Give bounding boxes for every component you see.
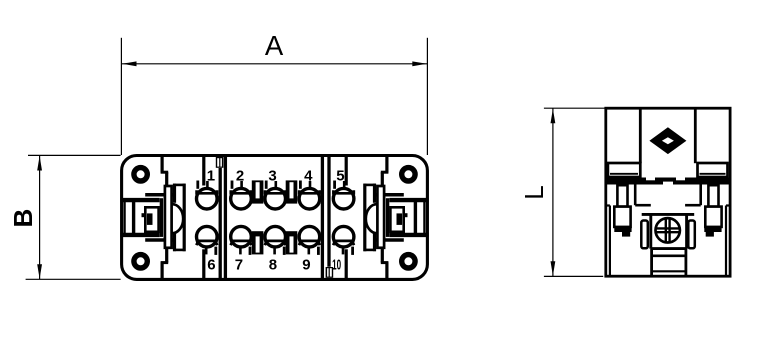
svg-text:1: 1 <box>207 167 215 184</box>
pin number 8 <box>269 256 277 273</box>
pin number 1 <box>207 167 215 184</box>
interface band <box>606 178 730 185</box>
svg-text:3: 3 <box>268 167 276 184</box>
staple top 2-3 <box>252 180 264 203</box>
channel wall left a <box>224 156 227 279</box>
svg-text:9: 9 <box>302 256 310 273</box>
dimension L arrow top <box>551 109 556 124</box>
guide bump left <box>172 204 183 233</box>
dimension L extension line bottom <box>544 275 603 277</box>
diamond marking <box>649 127 686 154</box>
contact 2 <box>231 181 252 210</box>
svg-text:7: 7 <box>235 256 243 273</box>
lower inset wall right <box>726 206 730 276</box>
dimension A label <box>265 30 284 61</box>
corner ear top-right <box>364 155 404 203</box>
marking block bottom <box>326 267 334 278</box>
dimension L extension line top <box>544 107 605 109</box>
dimension B extension line bottom <box>26 278 121 280</box>
svg-text:B: B <box>8 209 38 228</box>
cage tab right <box>688 221 695 249</box>
mounting hole top-left <box>134 168 147 181</box>
contact 5 <box>333 181 354 210</box>
dimension A extension line left <box>120 38 122 155</box>
dimension L label <box>519 185 549 199</box>
marking block top <box>216 157 224 168</box>
guide bump right <box>366 204 377 233</box>
corner ear bottom-left <box>145 232 185 280</box>
wall line bottom-right <box>345 249 348 278</box>
dimension B arrow bottom <box>37 264 42 279</box>
terminal right <box>685 185 722 237</box>
coding tab right <box>698 163 728 177</box>
coding tab left <box>608 163 640 177</box>
contact 1 <box>197 181 218 210</box>
svg-text:10: 10 <box>332 256 341 273</box>
foot left wall <box>650 249 653 276</box>
wall line top-right <box>345 156 348 186</box>
svg-text:A: A <box>265 30 284 61</box>
dimension B label <box>8 209 38 228</box>
staple top 3-4 <box>286 180 298 203</box>
wall line bottom-left <box>202 249 205 278</box>
mounting hole bottom-right <box>402 255 415 268</box>
contact 9 <box>299 226 320 255</box>
screw head <box>656 218 680 242</box>
dimension B line <box>39 155 41 279</box>
dimension A arrow left <box>122 61 137 66</box>
staple bottom 7-8 <box>252 231 264 254</box>
corner ear top-left <box>145 155 185 203</box>
wall line top-left <box>202 156 205 186</box>
contact 10 <box>333 226 354 255</box>
dimension B extension line top <box>28 154 121 156</box>
screw cage <box>642 214 695 248</box>
lower inset wall left <box>606 206 610 276</box>
chamber wall right <box>363 184 366 252</box>
contact 3 <box>265 181 286 210</box>
pin number 10 <box>332 256 341 273</box>
dimension A arrow right <box>412 61 427 66</box>
contact 4 <box>299 181 320 210</box>
terminal left <box>614 185 651 237</box>
staple bottom 8-9 <box>286 231 298 254</box>
chamber wall left <box>183 184 186 252</box>
dimension L line <box>552 108 554 276</box>
contact 7 <box>231 226 252 255</box>
svg-text:8: 8 <box>269 256 277 273</box>
foot inner line <box>652 270 686 272</box>
svg-text:2: 2 <box>236 167 244 184</box>
guide slot right <box>377 186 384 248</box>
svg-text:5: 5 <box>336 167 344 184</box>
dimension L arrow bottom <box>551 261 556 276</box>
guide slot left <box>165 186 172 248</box>
dimension A extension line right <box>426 38 428 155</box>
svg-text:4: 4 <box>304 167 313 184</box>
foot right wall <box>685 249 688 276</box>
side view outline <box>606 108 730 276</box>
side view divider right <box>694 108 697 163</box>
pin number 7 <box>235 256 243 273</box>
channel wall right a <box>321 156 324 279</box>
pin number 3 <box>268 167 276 184</box>
mounting hole bottom-left <box>134 255 147 268</box>
dimension B arrow top <box>37 156 42 171</box>
pin number 2 <box>236 167 244 184</box>
svg-text:6: 6 <box>207 256 215 273</box>
dimension A line <box>121 63 427 65</box>
cage tab left <box>641 221 648 249</box>
pin number 5 <box>336 167 344 184</box>
pin number 4 <box>304 167 313 184</box>
front view body outline <box>122 156 428 280</box>
guide block right <box>388 198 429 237</box>
guide block left <box>120 198 161 237</box>
pin number 9 <box>302 256 310 273</box>
contact 6 <box>196 226 217 255</box>
mounting hole top-right <box>402 168 415 181</box>
clamp line <box>652 255 686 258</box>
pin number 6 <box>207 256 215 273</box>
channel wall left b <box>219 168 222 279</box>
side view divider left <box>639 108 642 163</box>
channel wall right b <box>327 156 330 267</box>
contact 8 <box>265 226 286 255</box>
svg-text:L: L <box>519 185 549 199</box>
corner ear bottom-right <box>364 232 404 280</box>
